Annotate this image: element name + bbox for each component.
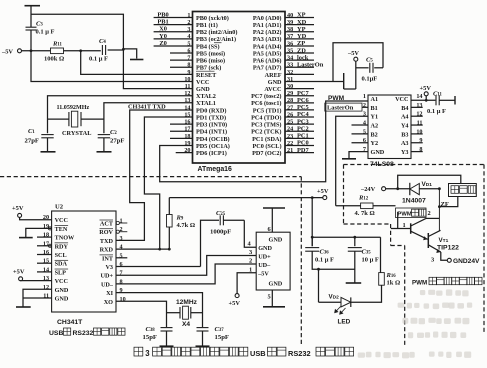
capacitor C4 [89,38,108,63]
terminal -24V [360,186,410,193]
svg-text:8: 8 [120,278,123,285]
svg-text:100k Ω: 100k Ω [44,56,64,63]
svg-text:YD: YD [297,33,307,40]
svg-text:PA1 (AD1): PA1 (AD1) [253,22,282,29]
wire gnd-rail to pin11 [123,49,192,89]
svg-text:Y1: Y1 [371,114,379,121]
svg-text:4: 4 [120,244,123,251]
wire PD1-TXD to U2 RXD [144,117,192,249]
svg-text:INT: INT [102,255,114,262]
svg-text:PD0 (RXD): PD0 (RXD) [196,107,226,114]
svg-text:PB4 (SS): PB4 (SS) [196,43,220,50]
svg-text:PC6 (tosc1): PC6 (tosc1) [251,100,281,107]
svg-text:GND: GND [196,86,210,93]
svg-text:5: 5 [268,294,271,301]
svg-text:UD–: UD– [258,262,271,269]
svg-text:V3: V3 [105,264,113,271]
svg-text:PB6 (miso): PB6 (miso) [196,58,225,65]
wire R16 to LED [351,285,381,302]
svg-text:2: 2 [428,210,431,217]
dashed PWM box left-lower [404,246,406,346]
svg-text:RESET: RESET [196,72,217,79]
svg-text:7: 7 [120,270,123,277]
svg-text:Y4: Y4 [401,122,409,129]
IC U3 74LS08 body [368,95,411,168]
wire PD0-RXD to U2 TXD [116,110,193,240]
capacitor C3 [26,21,55,36]
dashed PWM box step-right [391,245,405,247]
svg-text:ZF: ZF [441,201,449,208]
wire GND pin31 to bar [285,73,356,89]
ground GND pins 12 11 [16,289,52,307]
svg-text:YP: YP [297,26,306,33]
svg-text:RDY: RDY [55,243,69,250]
svg-text:3: 3 [120,235,123,242]
svg-text:ZD: ZD [297,47,306,54]
svg-text:LasterOn: LasterOn [327,105,354,112]
ATmega16 left pins 1-20 [154,12,238,157]
svg-text:XTAL1: XTAL1 [196,100,216,107]
label 12MHz [176,299,198,306]
svg-text:0.1μF: 0.1μF [362,76,378,83]
svg-text:VCC: VCC [196,79,209,86]
caption figure 3 [134,347,354,358]
svg-text:B2: B2 [371,131,378,138]
svg-text:R12: R12 [358,194,369,201]
svg-text:0.1 μ F: 0.1 μ F [36,29,55,36]
svg-text:PB0 (xck/t0): PB0 (xck/t0) [196,15,229,22]
svg-text:RS232: RS232 [73,330,94,337]
dashed PWM box bottom-step [344,223,391,225]
svg-text:PB1 (t1): PB1 (t1) [196,22,218,29]
wire rail to GND pin11 [31,14,123,49]
wire XI pin9 to crystal [116,293,203,327]
terminal +5V USB [229,294,241,307]
wire XTAL1 pin13 [104,103,193,133]
dashed PWM box right [483,165,485,333]
svg-text:XP: XP [297,12,306,19]
wire C25 to USB GND pin4 [244,220,256,247]
svg-text:1000pF: 1000pF [210,229,231,236]
svg-text:PA5 (AD5): PA5 (AD5) [253,50,282,57]
svg-text:lock: lock [297,54,309,61]
label USB-RS232 section [49,328,125,337]
svg-text:1: 1 [249,266,252,273]
svg-text:3: 3 [249,249,252,256]
svg-text:PC4 (TDO): PC4 (TDO) [251,114,281,121]
terminal +5V U2 vcc13 [13,269,52,281]
svg-text:VCC: VCC [55,217,68,224]
svg-text:PC4: PC4 [297,111,310,118]
svg-text:C37: C37 [215,326,225,333]
ground bar C37 [196,345,210,347]
svg-text:PWM: PWM [412,280,427,287]
svg-text:PC3 (TMS): PC3 (TMS) [251,122,281,129]
svg-text:PA7 (AD7): PA7 (AD7) [253,65,282,72]
svg-text:PWM: PWM [328,95,345,102]
svg-text:15pF: 15pF [143,334,158,341]
wire LED left up [318,269,320,302]
wire C36 C35 bottom to gnd [312,251,355,283]
svg-text:PB0: PB0 [157,12,168,19]
svg-text:Y0: Y0 [159,33,167,40]
capacitor C1 27pF [25,128,54,152]
svg-text:6: 6 [120,261,123,268]
stub TNOW RDY SCL SDA SLP [37,237,52,272]
svg-text:–5V: –5V [257,271,269,278]
svg-text:C11: C11 [433,90,443,97]
svg-text:PC6: PC6 [297,97,310,104]
svg-text:PD4 (INT1): PD4 (INT1) [196,129,227,136]
svg-text:3: 3 [431,257,434,264]
svg-text:+5V: +5V [420,85,432,92]
diode VD1 1N4007 [402,181,439,205]
label PWM drive circuit [412,277,482,286]
svg-text:PC7 (tosc2): PC7 (tosc2) [251,93,281,100]
wire valve bottom ZF [438,187,458,231]
svg-text:C4: C4 [99,38,106,45]
USB connector box [256,232,290,290]
svg-text:PC0: PC0 [297,140,309,147]
capacitor C36 0.1uF [305,248,334,264]
svg-text:GND: GND [258,245,272,252]
svg-text:+5V: +5V [317,188,329,195]
svg-text:USB: USB [49,330,63,337]
svg-text:PC2: PC2 [297,125,309,132]
terminal +5V U2 top [12,205,52,220]
svg-text:R9: R9 [176,215,184,222]
ground bar C38 [160,345,174,347]
svg-text:C38: C38 [146,326,156,333]
wire rail 237 [311,236,381,239]
svg-text:4.7k Ω: 4.7k Ω [177,222,196,229]
svg-text:PB3 (oc2/Ain1): PB3 (oc2/Ain1) [196,36,236,43]
terminal +5V (C11) [420,85,432,100]
svg-text:PD4 (OC1B): PD4 (OC1B) [196,136,230,143]
svg-text:PC1 (SDA): PC1 (SDA) [252,136,281,143]
svg-text:PC3: PC3 [297,118,309,125]
svg-text:3: 3 [145,349,150,358]
svg-text:PA6 (AD6): PA6 (AD6) [253,58,282,65]
svg-text:PWM: PWM [398,212,412,218]
svg-text:PB1: PB1 [157,19,168,26]
svg-text:ATmega16: ATmega16 [198,166,233,173]
svg-text:C25: C25 [216,210,226,217]
svg-text:VD1: VD1 [422,181,433,188]
USB pin labels [257,245,283,288]
svg-text:PD1 (TXD): PD1 (TXD) [196,114,226,121]
svg-text:C3: C3 [36,21,43,28]
svg-text:ROV: ROV [99,229,113,236]
CH341T pin labels [43,214,126,306]
dashed PWM box left [343,165,345,225]
74LS08 pin rows [352,93,423,156]
svg-text:12MHz: 12MHz [176,299,198,306]
svg-text:A1: A1 [371,96,379,103]
svg-text:10 μ F: 10 μ F [362,257,379,264]
svg-text:UD+: UD+ [258,254,271,261]
svg-text:PA4 (AD4): PA4 (AD4) [253,43,282,50]
svg-text:PD3 (INT0): PD3 (INT0) [196,122,227,129]
svg-text:PB7 (sck): PB7 (sck) [196,65,221,72]
svg-text:USB: USB [250,349,266,358]
svg-text:ACT: ACT [100,220,114,227]
svg-text:0.1 μ F: 0.1 μ F [89,56,108,63]
wire U2 UD+ to USB pin3 [116,249,256,275]
svg-text:Y2: Y2 [371,140,379,147]
svg-text:C1: C1 [28,128,35,135]
crystal Y1 11.0592MHz [48,111,104,137]
svg-text:B3: B3 [401,131,408,138]
svg-text:GND: GND [268,79,282,86]
IC U2 CH341T body [52,204,116,327]
wire C3 to VCC pin10 [31,51,193,82]
svg-text:2: 2 [249,258,252,265]
wire R12 to base [391,212,411,229]
svg-text:C36: C36 [320,249,330,256]
transistor VT1 TIP122 [411,218,459,253]
dashed separator vertical [300,177,302,346]
svg-text:SDA: SDA [55,261,68,268]
capacitor C25 1000pF [201,210,245,267]
crystal X4 [167,306,203,328]
ground bar C1 [41,151,56,153]
capacitor C11 0.1uF [427,90,455,115]
svg-text:PD7 (OC2): PD7 (OC2) [252,150,281,157]
ghost print-through marks [358,289,472,358]
svg-text:1: 1 [363,93,366,100]
svg-text:PC5 (TD1): PC5 (TD1) [253,107,282,114]
wire +5V rail [169,196,322,199]
stub INT pin5 [116,257,127,259]
svg-text:AVCC: AVCC [264,86,281,93]
wire Y1 pin3 down [336,116,368,206]
ground 74LS08 pin7 [342,152,368,159]
capacitor C38 15pF [143,326,173,346]
svg-text:GND24V: GND24V [453,258,480,265]
resistor R11 100k [44,41,64,63]
resistor R9 4.7k [167,198,196,250]
svg-text:TIP122: TIP122 [437,245,459,252]
svg-text:C35: C35 [362,249,372,256]
svg-text:VT1: VT1 [439,237,449,244]
capacitor C37 15pF [197,326,230,346]
svg-text:U2: U2 [55,204,64,211]
wire to RESET pin9 [81,51,193,75]
svg-text:PD7: PD7 [297,147,310,154]
svg-text:GND: GND [55,287,69,294]
svg-text:14: 14 [416,93,422,100]
wire C3 bottom lead [30,30,32,51]
ground bar (C4) [130,59,143,61]
svg-text:0.1 μ F: 0.1 μ F [427,108,446,115]
svg-text:XO: XO [104,299,113,306]
dashed separator horizontal [0,176,301,178]
svg-text:VCC: VCC [395,96,408,103]
svg-text:Y3: Y3 [401,149,409,156]
net label box LasterOn to B1 [325,103,368,112]
dashed PWM box top [344,164,485,166]
svg-text:1N4007: 1N4007 [402,198,426,205]
svg-text:+5V: +5V [229,300,241,307]
svg-text:–5V: –5V [347,50,359,57]
svg-text:PA2 (AD2): PA2 (AD2) [253,29,282,36]
svg-text:PA3 (AD3): PA3 (AD3) [253,36,282,43]
wire emitter to GND24V [431,252,480,265]
svg-text:R11: R11 [52,41,63,48]
svg-text:X4: X4 [182,321,190,328]
wire C4 to gnd [108,48,137,59]
svg-text:C5: C5 [366,57,373,64]
svg-text:B4: B4 [401,105,408,112]
svg-text:1k Ω: 1k Ω [387,280,401,287]
svg-text:PD6 (ICP1): PD6 (ICP1) [196,150,227,157]
svg-text:GND: GND [269,237,283,244]
svg-text:PC7: PC7 [297,90,310,97]
svg-text:1: 1 [403,222,406,229]
svg-text:TEN: TEN [55,226,68,233]
wire XTAL2 pin12 [48,96,193,134]
svg-text:PC1: PC1 [297,133,309,140]
ground bar C2 [97,151,112,153]
svg-text:B1: B1 [371,105,378,112]
USB shield pin6 [263,208,285,244]
svg-text:LasterOn: LasterOn [297,61,324,68]
svg-text:4. 7k Ω: 4. 7k Ω [355,210,375,217]
svg-text:TXD: TXD [100,238,114,245]
wire -24V over-loop to valve [396,175,460,190]
svg-text:ZP: ZP [297,40,305,47]
capacitor C35 10uF [348,237,379,263]
ATmega16 right pins 21-40 [251,12,324,157]
svg-text:VD2: VD2 [329,293,340,300]
svg-text:GND: GND [371,149,385,156]
svg-text:RXD: RXD [100,247,114,254]
svg-text:–24V: –24V [360,186,376,193]
svg-text:AREF: AREF [265,72,282,79]
wire +5V down to C36 [311,198,313,247]
svg-text:0.1 μ F: 0.1 μ F [315,257,334,264]
svg-text:+5V: +5V [12,205,24,212]
wire R16 top [380,237,382,272]
label 11.0592MHz [57,105,90,111]
wire XO pin10 to crystal [116,301,167,327]
wire VCC pin14 [411,99,435,102]
wire PWM PD5-OC1A to 74LS08 A1 [160,101,368,182]
wire U2 V3 row [116,266,201,268]
svg-text:+5V: +5V [13,269,25,276]
svg-text:XI: XI [106,290,113,297]
wire loop AREF area [333,43,383,82]
wire USB pin1 to +5V [237,266,256,293]
svg-text:PD5 (OC1A): PD5 (OC1A) [196,143,230,150]
dashed PWM box step-down [390,224,392,246]
net label CH341T TXD [128,104,166,111]
svg-text:GND: GND [55,296,69,303]
svg-text:PA0 (AD0): PA0 (AD0) [253,15,282,22]
USB pin5 gnd stub [263,290,285,307]
wire R11 to C4 [64,49,101,52]
wire U2 UD- to USB pin2 [116,258,256,284]
svg-text:11.0592MHz: 11.0592MHz [57,105,90,111]
terminal +5V rail [317,188,329,200]
solenoid valve box [449,184,477,197]
svg-text:15pF: 15pF [215,334,230,341]
svg-text:RS232: RS232 [288,349,311,358]
terminal -5V right [347,50,359,89]
net label PWM [328,95,345,102]
svg-text:UD–: UD– [101,281,114,288]
svg-text:PC5: PC5 [297,104,309,111]
rail +5V to C35 R16 [311,197,313,199]
svg-text:XD: XD [297,19,307,26]
net label box PWM signal [396,208,431,218]
svg-text:GND: GND [269,281,283,288]
LED VD2 [319,293,351,325]
svg-text:X0: X0 [159,26,167,33]
svg-text:R16: R16 [386,272,397,279]
svg-text:UD+: UD+ [101,273,114,280]
resistor R12 4.7k [336,194,396,217]
svg-text:LED: LED [338,319,351,326]
svg-text:CRYSTAL: CRYSTAL [62,130,91,137]
svg-text:PC0 (SCL): PC0 (SCL) [252,143,281,150]
ground bar C35 [346,282,362,284]
svg-text:A4: A4 [401,114,409,121]
svg-text:PB2 (int2/Ain0): PB2 (int2/Ain0) [196,29,237,36]
svg-text:SLP: SLP [55,269,67,276]
svg-text:27pF: 27pF [25,138,40,145]
svg-text:CH341T: CH341T [57,319,83,326]
resistor R16 1k [379,272,401,287]
bubbles ACT ROV [116,221,127,233]
power rail bar (C3 top) [25,6,41,28]
svg-text:VCC: VCC [55,278,68,285]
svg-text:–5V: –5V [1,48,13,55]
svg-text:PB5 (mosi): PB5 (mosi) [196,50,225,57]
svg-text:XTAL2: XTAL2 [196,93,216,100]
svg-text:PC2 (TCK): PC2 (TCK) [251,129,281,136]
svg-text:C2: C2 [110,129,117,136]
capacitor C2 27pF [98,129,125,152]
svg-text:Z0: Z0 [159,40,166,47]
svg-text:SCL: SCL [55,252,67,259]
IC U1 ATmega16 body [193,12,286,173]
svg-text:A2: A2 [371,122,379,129]
capacitor C5 0.1uF [356,57,383,83]
svg-text:27pF: 27pF [110,138,125,145]
svg-text:A3: A3 [401,140,409,147]
wire U2 RXD row [116,248,171,251]
svg-text:TNOW: TNOW [55,235,75,242]
wire C36 rail segment [311,237,313,246]
ground TEN pin19 [19,227,52,238]
terminal -5V left [1,48,51,55]
